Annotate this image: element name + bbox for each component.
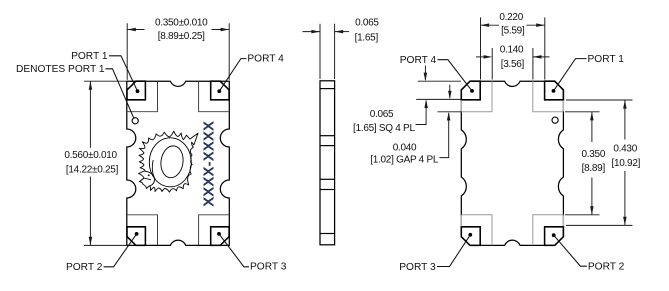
leader dot port3 bbox=[217, 232, 221, 236]
dimension 0.220, extension lines bbox=[480, 17, 482, 79]
extension line, wrap line (left) bbox=[438, 111, 462, 113]
svg-text:0.040: 0.040 bbox=[393, 142, 417, 153]
left view: package body outline bbox=[127, 81, 230, 245]
right view: PORT 4 pad (top-left) bbox=[461, 81, 480, 100]
right view: PORT 3 pad (bottom-left) bbox=[461, 227, 480, 246]
svg-text:0.065: 0.065 bbox=[370, 109, 394, 120]
dimension 0.350 width, extension lines bbox=[126, 23, 128, 80]
left view: terminal wrap boundary top-right bbox=[199, 81, 230, 112]
svg-text:[1.65]: [1.65] bbox=[355, 32, 379, 43]
side view: body outline bbox=[320, 81, 335, 245]
dimension 0.140, dimension line + arrows bbox=[476, 56, 486, 58]
dimension 0.065 thickness, extension lines bbox=[319, 24, 321, 79]
extension line, top edge (left) bbox=[418, 80, 461, 82]
left view: terminal wrap boundary bottom-right bbox=[199, 215, 230, 246]
leader dot port2 bbox=[135, 232, 139, 236]
svg-text:PORT 2: PORT 2 bbox=[66, 262, 103, 273]
svg-text:[5.59]: [5.59] bbox=[501, 26, 525, 37]
right view: edge gap segments (lighter) bbox=[460, 100, 462, 111]
left view: PORT 2 pad (bottom-left) bbox=[127, 227, 145, 246]
right view: terminal wrap boundary top-right bbox=[533, 81, 564, 112]
extension line, pad inner edge (left) bbox=[416, 98, 461, 100]
leader dot port1 (right view) bbox=[552, 89, 556, 93]
dimension 0.560 height, dimension line + arrows bbox=[89, 81, 91, 148]
svg-text:[14.22±0.25]: [14.22±0.25] bbox=[66, 164, 119, 175]
svg-text:PORT 1: PORT 1 bbox=[71, 51, 108, 62]
logo: dragon head bbox=[145, 171, 155, 186]
right view: terminal wrap boundary bottom-right bbox=[533, 215, 564, 246]
svg-text:[8.89±0.25]: [8.89±0.25] bbox=[158, 31, 205, 42]
left view: PORT 4 pad (top-right) bbox=[211, 81, 229, 100]
logo: dragon body ring bbox=[149, 138, 191, 187]
svg-text:[1.02] GAP 4 PL: [1.02] GAP 4 PL bbox=[370, 154, 439, 165]
dimension 0.350, extension lines bbox=[565, 111, 600, 113]
leader dot port3 (right view) bbox=[468, 233, 472, 237]
right view: port 1 indicator circle bbox=[552, 117, 558, 123]
svg-text:XXXX-XXXX: XXXX-XXXX bbox=[201, 121, 218, 207]
right view: PORT 1 pad (top-right) bbox=[545, 81, 564, 100]
left view: PORT 3 pad (bottom-right) bbox=[211, 227, 229, 246]
svg-text:PORT 3: PORT 3 bbox=[250, 262, 287, 273]
left view: port 1 indicator circle bbox=[132, 118, 138, 124]
svg-text:0.065: 0.065 bbox=[355, 17, 379, 28]
dimension 0.560 height, extension lines bbox=[84, 80, 126, 82]
right view: terminal wrap boundary top-left bbox=[461, 81, 492, 112]
svg-text:[8.89]: [8.89] bbox=[582, 163, 606, 174]
svg-text:PORT 2: PORT 2 bbox=[588, 262, 625, 273]
right view: PORT 2 pad (bottom-right) bbox=[545, 227, 564, 246]
dimension 0.220, dimension line + arrows bbox=[481, 24, 500, 26]
svg-text:[1.65] SQ 4 PL: [1.65] SQ 4 PL bbox=[353, 123, 415, 134]
dimension 0.430, extension lines bbox=[566, 99, 633, 101]
svg-text:0.350: 0.350 bbox=[581, 149, 605, 160]
dimension 0.350, dimension line + arrows bbox=[591, 112, 593, 142]
side view: lamination lines bbox=[320, 88, 335, 90]
svg-text:0.560±0.010: 0.560±0.010 bbox=[64, 150, 117, 161]
dimension 0.065 thickness, arrows bbox=[302, 31, 320, 33]
dimension 0.350 width, dimension line + arrows bbox=[127, 29, 144, 31]
svg-text:DENOTES PORT 1: DENOTES PORT 1 bbox=[16, 64, 105, 75]
left view: terminal wrap boundary top-left bbox=[127, 81, 158, 112]
svg-text:0.220: 0.220 bbox=[499, 12, 523, 23]
leader dot port4 (right view) bbox=[470, 89, 474, 93]
leader dot port2 (right view) bbox=[552, 233, 556, 237]
svg-text:PORT 4: PORT 4 bbox=[247, 54, 284, 65]
dimension 0.430, dimension line + arrows bbox=[624, 100, 626, 140]
left view: PORT 1 pad (top-left) bbox=[127, 81, 145, 100]
svg-text:[3.56]: [3.56] bbox=[501, 59, 525, 70]
right view: package body outline bbox=[461, 81, 563, 245]
left view: terminal wrap boundary bottom-left bbox=[127, 215, 158, 246]
dimension 0.140, extension lines bbox=[491, 48, 493, 80]
svg-text:0.350±0.010: 0.350±0.010 bbox=[155, 17, 208, 28]
svg-text:PORT 3: PORT 3 bbox=[399, 262, 436, 273]
svg-text:0.140: 0.140 bbox=[500, 44, 524, 55]
svg-text:PORT 4: PORT 4 bbox=[400, 55, 437, 66]
svg-text:0.430: 0.430 bbox=[613, 144, 637, 155]
leader dot port1 bbox=[136, 89, 140, 93]
logo: dragon emblem flame outline bbox=[139, 131, 199, 192]
leader dot port4 bbox=[217, 89, 221, 93]
svg-text:PORT 1: PORT 1 bbox=[588, 54, 625, 65]
right view: terminal wrap boundary bottom-left bbox=[461, 215, 492, 246]
svg-text:[10.92]: [10.92] bbox=[611, 158, 640, 169]
